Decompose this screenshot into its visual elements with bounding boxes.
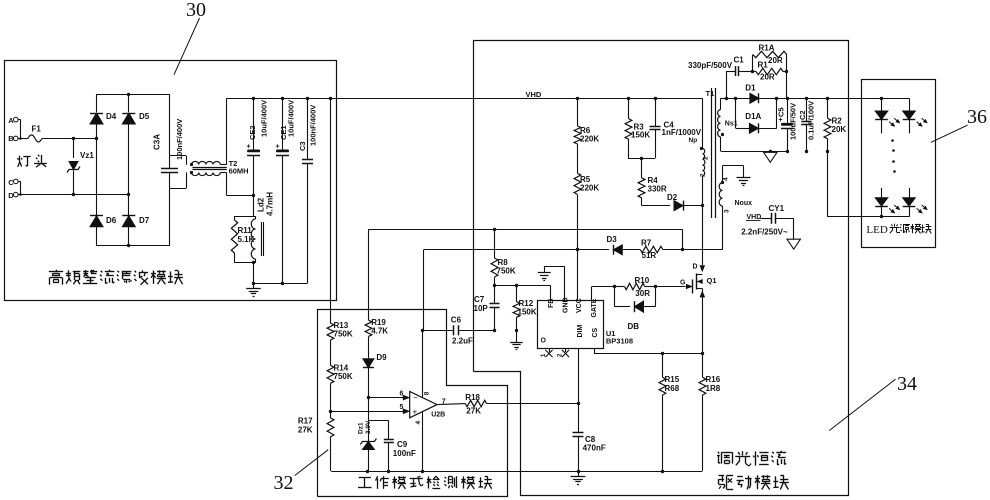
svg-text:DB: DB — [628, 322, 640, 331]
T1 secondary Ns1 — [718, 98, 787, 151]
resistor R4 — [638, 158, 670, 205]
wire gate line — [592, 285, 686, 301]
label 36 — [967, 106, 987, 128]
resistor R14 — [327, 364, 353, 414]
diode D7 — [122, 195, 149, 246]
varistor Vz1 — [67, 138, 94, 196]
resistor R5 — [574, 173, 599, 300]
svg-text:+: + — [276, 144, 280, 151]
resistor R1 — [753, 61, 788, 99]
svg-text:GND: GND — [563, 297, 570, 313]
svg-text:R11: R11 — [238, 226, 253, 235]
diode D5 — [122, 94, 149, 195]
svg-text:4.7K: 4.7K — [371, 327, 388, 336]
module box 36 (LED light source) — [862, 80, 936, 248]
svg-text:220K: 220K — [580, 135, 599, 144]
svg-text:Q1: Q1 — [707, 276, 717, 285]
svg-text:36: 36 — [967, 106, 987, 128]
IC U1 BP3108 — [538, 297, 634, 348]
label 34 — [897, 373, 917, 395]
transformer T1 label — [706, 89, 715, 98]
svg-text:10uF/400V: 10uF/400V — [287, 100, 296, 137]
capacitor C6 — [421, 316, 495, 346]
resistor R13 — [327, 310, 353, 365]
svg-text:6: 6 — [400, 390, 404, 397]
inductor Ld2 coil — [251, 192, 274, 263]
diode D3 — [607, 235, 623, 255]
svg-text:10uF/400V: 10uF/400V — [260, 100, 269, 137]
wire FB line — [495, 284, 551, 301]
wire aux supply line — [424, 248, 723, 330]
svg-text:D7: D7 — [139, 216, 150, 225]
resistor R10 — [625, 276, 651, 298]
diode D6 — [90, 138, 117, 245]
inductor Ld2 with R11 parallel — [235, 196, 256, 284]
label lamp head (dengtou) — [18, 155, 47, 167]
svg-text:32: 32 — [274, 472, 294, 494]
svg-text:D6: D6 — [106, 216, 117, 225]
svg-text:C9: C9 — [397, 440, 408, 449]
svg-text:100nF/400V: 100nF/400V — [175, 119, 184, 160]
T1 core — [712, 88, 716, 218]
svg-text:D9: D9 — [376, 353, 387, 362]
resistor R6 — [574, 98, 599, 173]
svg-text:150K: 150K — [518, 308, 537, 317]
svg-text:30: 30 — [186, 0, 206, 21]
resistor R16 — [699, 354, 721, 472]
LED string left bottom — [875, 188, 899, 217]
Y-capacitor CY1 — [741, 204, 794, 239]
wire LED return — [827, 151, 909, 217]
svg-text:2: 2 — [703, 156, 710, 160]
diode DB — [615, 287, 656, 332]
wire LED cathode rail — [880, 215, 883, 218]
label LED light source module — [866, 224, 931, 236]
svg-text:30R: 30R — [635, 289, 650, 298]
leader line for 36 — [931, 125, 968, 142]
svg-text:1R8: 1R8 — [706, 384, 721, 393]
svg-text:Np: Np — [689, 137, 698, 144]
svg-text:470nF: 470nF — [583, 444, 606, 453]
diode D4 — [90, 94, 117, 138]
svg-text:34: 34 — [897, 373, 917, 395]
diode D2 — [667, 193, 704, 211]
terminal D — [8, 191, 22, 200]
svg-text:C6: C6 — [451, 316, 462, 325]
zener Dz1 — [358, 398, 377, 471]
T1 primary Np — [689, 98, 710, 265]
label 30 — [186, 0, 206, 21]
svg-text:0.1uF/100V: 0.1uF/100V — [807, 101, 816, 140]
svg-text:8: 8 — [424, 391, 431, 395]
LED string left top — [875, 98, 899, 133]
ground rail of module 30 — [252, 282, 308, 285]
label work mode detection module — [358, 476, 492, 489]
svg-text:4.7mH: 4.7mH — [266, 192, 275, 216]
label 32 — [274, 472, 294, 494]
diode D9 — [363, 353, 387, 399]
wire LED anode rail — [848, 97, 909, 100]
electrolytic C5 — [777, 98, 798, 151]
svg-text:VHD: VHD — [747, 214, 762, 221]
svg-text:2.2uF: 2.2uF — [452, 337, 473, 346]
terminal B — [8, 134, 22, 143]
electrolytic CE1 — [276, 98, 296, 285]
resistor R11 — [231, 220, 254, 253]
wire VHD sense to R13 — [330, 98, 332, 310]
resistor R15 — [659, 354, 680, 474]
svg-text:220K: 220K — [580, 184, 599, 193]
label T2 60MH — [229, 159, 249, 175]
terminal C — [8, 178, 20, 195]
svg-text:T1: T1 — [706, 89, 715, 98]
wire DIM column — [577, 348, 580, 405]
resistor R1A — [753, 44, 787, 72]
LED string right bottom — [903, 188, 927, 217]
svg-text:5: 5 — [400, 404, 404, 411]
common-mode choke T2 winding 1 — [170, 98, 227, 166]
svg-text:G: G — [680, 280, 686, 287]
wire B-line to bridge — [72, 137, 98, 140]
MOSFET Q1 — [680, 264, 717, 354]
svg-text:27K: 27K — [298, 426, 313, 435]
svg-text:C1: C1 — [734, 56, 745, 65]
wire opamp pin6 input — [368, 390, 409, 400]
svg-text:Dz1: Dz1 — [358, 422, 365, 434]
svg-text:330R: 330R — [648, 185, 667, 194]
svg-text:100nF/400V: 100nF/400V — [309, 105, 318, 146]
svg-text:DIM: DIM — [577, 325, 584, 338]
wire R3-C4 bottom join — [628, 157, 655, 160]
wire opamp pin5 input — [331, 404, 410, 414]
electrolytic CE2 — [247, 98, 269, 197]
svg-text:1nF/1000V: 1nF/1000V — [662, 128, 702, 137]
svg-text:3: 3 — [724, 209, 731, 213]
svg-text:D4: D4 — [106, 112, 117, 121]
svg-text:GATE: GATE — [591, 298, 598, 317]
resistor R12 — [513, 285, 537, 332]
svg-text:150K: 150K — [631, 131, 650, 140]
secondary common rail — [769, 150, 829, 153]
svg-text:D1A: D1A — [745, 112, 761, 121]
svg-text:VCC: VCC — [576, 298, 583, 313]
svg-text:FB: FB — [548, 299, 555, 308]
choke T2 winding 2 — [170, 171, 254, 196]
svg-text:BP3108: BP3108 — [606, 337, 633, 346]
IC pin2 no-connect — [558, 348, 570, 357]
ground symbol at Noux pin4 — [737, 178, 751, 186]
svg-text:CS: CS — [592, 327, 599, 337]
svg-text:20R: 20R — [768, 56, 783, 65]
svg-text:C7: C7 — [474, 295, 485, 304]
svg-text:R68: R68 — [665, 384, 680, 393]
wire D-line to bridge — [21, 193, 131, 196]
capacitor C2 — [798, 98, 816, 151]
capacitor C3A — [153, 94, 185, 246]
svg-text:Noux: Noux — [735, 200, 753, 207]
label dimming constant current (line1) — [717, 451, 786, 466]
net label VHD — [526, 90, 542, 99]
snubber capacitor C1 — [688, 56, 754, 99]
module box 32 (work-mode detection) — [318, 310, 508, 497]
svg-text:R15: R15 — [665, 375, 680, 384]
svg-text:100nF: 100nF — [393, 449, 416, 458]
svg-text:D2: D2 — [667, 193, 678, 202]
capacitor C3 — [298, 98, 318, 283]
bridge bottom rail — [97, 244, 170, 247]
svg-text:330pF/500V: 330pF/500V — [688, 61, 733, 70]
svg-text:Vz1: Vz1 — [80, 151, 94, 160]
svg-text:R17: R17 — [298, 417, 313, 426]
module box 30 (rectifier-filter) — [5, 61, 337, 301]
LED ellipsis dots — [891, 139, 896, 173]
module box 34 (dimming constant current driver) — [474, 41, 849, 496]
ground symbol below R12 — [510, 330, 523, 349]
resistor R19 — [365, 229, 388, 358]
LED string right top — [903, 98, 927, 133]
svg-text:+: + — [247, 144, 251, 151]
svg-text:750K: 750K — [334, 330, 353, 339]
ground symbol below C8 — [571, 471, 586, 485]
bridge top rail — [97, 93, 170, 96]
fuse F1 — [21, 125, 74, 142]
T2 core — [192, 168, 226, 170]
svg-text:20K: 20K — [832, 125, 847, 134]
floating ground triangle CY1 — [787, 239, 801, 249]
capacitor C7 — [474, 285, 500, 332]
svg-text:750K: 750K — [334, 372, 353, 381]
wire GND pin to ground — [544, 266, 564, 300]
svg-text:Ld2: Ld2 — [257, 197, 266, 212]
svg-text:F1: F1 — [32, 125, 42, 134]
svg-text:CE2: CE2 — [248, 125, 257, 140]
wire VCC top rail — [369, 228, 683, 250]
svg-text:U2B: U2B — [431, 411, 445, 418]
svg-text:+: + — [413, 408, 418, 417]
op-amp U2B — [410, 330, 446, 471]
resistor R2 — [824, 98, 846, 151]
capacitor C4 — [650, 98, 702, 158]
ground symbol near GND pin — [538, 273, 551, 281]
svg-text:D3: D3 — [607, 235, 618, 244]
wire CS line — [594, 348, 704, 355]
resistor R7 — [640, 239, 663, 261]
capacitor C8 — [573, 404, 606, 474]
terminal A — [8, 116, 20, 138]
rectifier diode D1 — [725, 84, 849, 104]
svg-text:4: 4 — [723, 177, 730, 181]
floating ground triangle secondary — [764, 152, 778, 162]
svg-text:O: O — [541, 338, 547, 345]
leader line for 30 — [174, 18, 200, 75]
svg-text:4: 4 — [415, 421, 422, 425]
svg-text:D5: D5 — [139, 112, 150, 121]
svg-text:CY1: CY1 — [769, 204, 785, 213]
main ground rail — [331, 470, 702, 473]
svg-text:750K: 750K — [497, 267, 516, 276]
svg-text:D: D — [693, 264, 698, 271]
rectifier diode D1A — [736, 98, 777, 133]
resistor R3 — [625, 98, 650, 158]
wire opamp output pin7 — [437, 398, 465, 405]
label high-freq rectifier filter module — [49, 270, 183, 285]
leader line for 34 — [829, 379, 895, 430]
svg-text:10P: 10P — [474, 304, 489, 313]
svg-text:VHD: VHD — [526, 90, 542, 99]
svg-text:27K: 27K — [466, 407, 481, 416]
svg-text:C3: C3 — [298, 141, 307, 151]
svg-text:2.2nF/250V~: 2.2nF/250V~ — [741, 228, 788, 237]
svg-text:C5: C5 — [777, 107, 786, 117]
svg-text:−: − — [413, 394, 418, 403]
resistor R18 — [465, 393, 578, 416]
svg-text:100uF/50V: 100uF/50V — [789, 103, 798, 140]
resistor R17 — [298, 411, 334, 471]
svg-text:LED: LED — [866, 224, 887, 236]
ground symbol module 30 — [246, 283, 261, 296]
svg-text:C3A: C3A — [153, 134, 162, 150]
wire VHD rail — [337, 97, 703, 100]
output rail VHD inside box30 — [227, 97, 337, 100]
svg-text:D1: D1 — [745, 84, 756, 93]
capacitor C9 — [368, 421, 416, 472]
svg-text:R16: R16 — [706, 375, 721, 384]
IC pin1 no-connect — [541, 348, 553, 357]
svg-text:60MH: 60MH — [229, 167, 249, 176]
T1 aux winding Noux — [719, 166, 752, 250]
leader line for 32 — [295, 450, 328, 476]
resistor R8 — [491, 229, 516, 287]
svg-text:2: 2 — [700, 173, 707, 177]
label driver module (line2) — [718, 475, 788, 489]
